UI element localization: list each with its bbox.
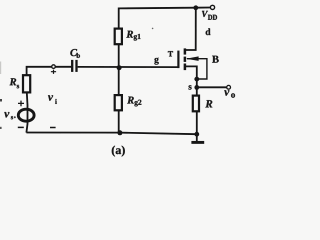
page edge mark 2 — [0, 127, 2, 129]
scan speck 1 — [152, 28, 154, 30]
junction Rg2 bottom rail dot — [117, 130, 122, 135]
wire VDD top rail — [119, 8, 211, 29]
transistor T bulk channel bar — [184, 57, 187, 62]
label B — [212, 56, 219, 63]
transistor T drain channel bar — [184, 48, 187, 54]
node s dot — [194, 85, 199, 90]
label Rg2 — [127, 97, 141, 107]
wire Cb to gate — [78, 66, 178, 68]
resistor Rg1 — [115, 29, 122, 45]
resistor Rg2 — [115, 95, 122, 110]
plus mark at input terminal — [51, 70, 56, 74]
wire vs to bottom rail and bottom rail — [26, 133, 196, 135]
scan speck 2 — [203, 16, 204, 17]
minus of vs — [18, 126, 24, 128]
output terminal vo open circle — [227, 85, 231, 89]
label R — [205, 100, 212, 107]
page edge mark 3 — [0, 62, 1, 75]
label vs — [4, 112, 13, 119]
scan speck 3 — [14, 116, 16, 118]
label VDD — [202, 11, 217, 20]
resistor R — [193, 96, 199, 112]
label Cb — [70, 49, 80, 58]
capacitor Cb right plate — [75, 60, 77, 72]
wire R bottom to rail — [196, 111, 198, 134]
bulk arrowhead — [186, 56, 199, 61]
label (a) — [112, 146, 125, 157]
label Rg1 — [126, 31, 140, 41]
wire bulk lead B loop to source — [187, 59, 207, 79]
resistor Rs — [23, 75, 30, 92]
wire drain lead to rail — [186, 8, 196, 50]
plus of vs — [18, 101, 24, 107]
junction drain-to-rail dot — [193, 5, 198, 10]
label vi — [48, 95, 57, 103]
ground symbol — [196, 134, 198, 141]
label s — [189, 85, 192, 89]
label d — [206, 28, 211, 35]
wire gate node to Rg2 — [118, 68, 120, 96]
transistor T source channel bar — [184, 64, 187, 71]
power terminal VDD open circle — [210, 5, 214, 9]
label Rs — [10, 78, 20, 88]
wire Rs corner to capacitor — [27, 67, 72, 75]
source vs circle — [18, 109, 34, 121]
junction bottom-right dot — [194, 132, 199, 137]
capacitor Cb left plate — [71, 60, 73, 72]
wire Rs to vs source — [26, 92, 27, 132]
wire output to vo terminal — [197, 86, 227, 88]
transistor T gate bar — [177, 51, 179, 69]
label vo — [224, 90, 235, 97]
wire source lead down to R — [186, 66, 197, 95]
label g — [154, 58, 158, 65]
page edge mark 1 — [0, 99, 2, 102]
wire Rg1 bottom to gate node — [118, 44, 120, 67]
input terminal open circle — [52, 65, 56, 69]
wire Rg2 bottom to rail — [118, 110, 120, 132]
minus polarity of vi on bottom rail — [50, 127, 56, 129]
label T — [168, 51, 173, 56]
node gate junction dot — [117, 65, 122, 70]
junction bulk-source dot — [194, 77, 199, 82]
